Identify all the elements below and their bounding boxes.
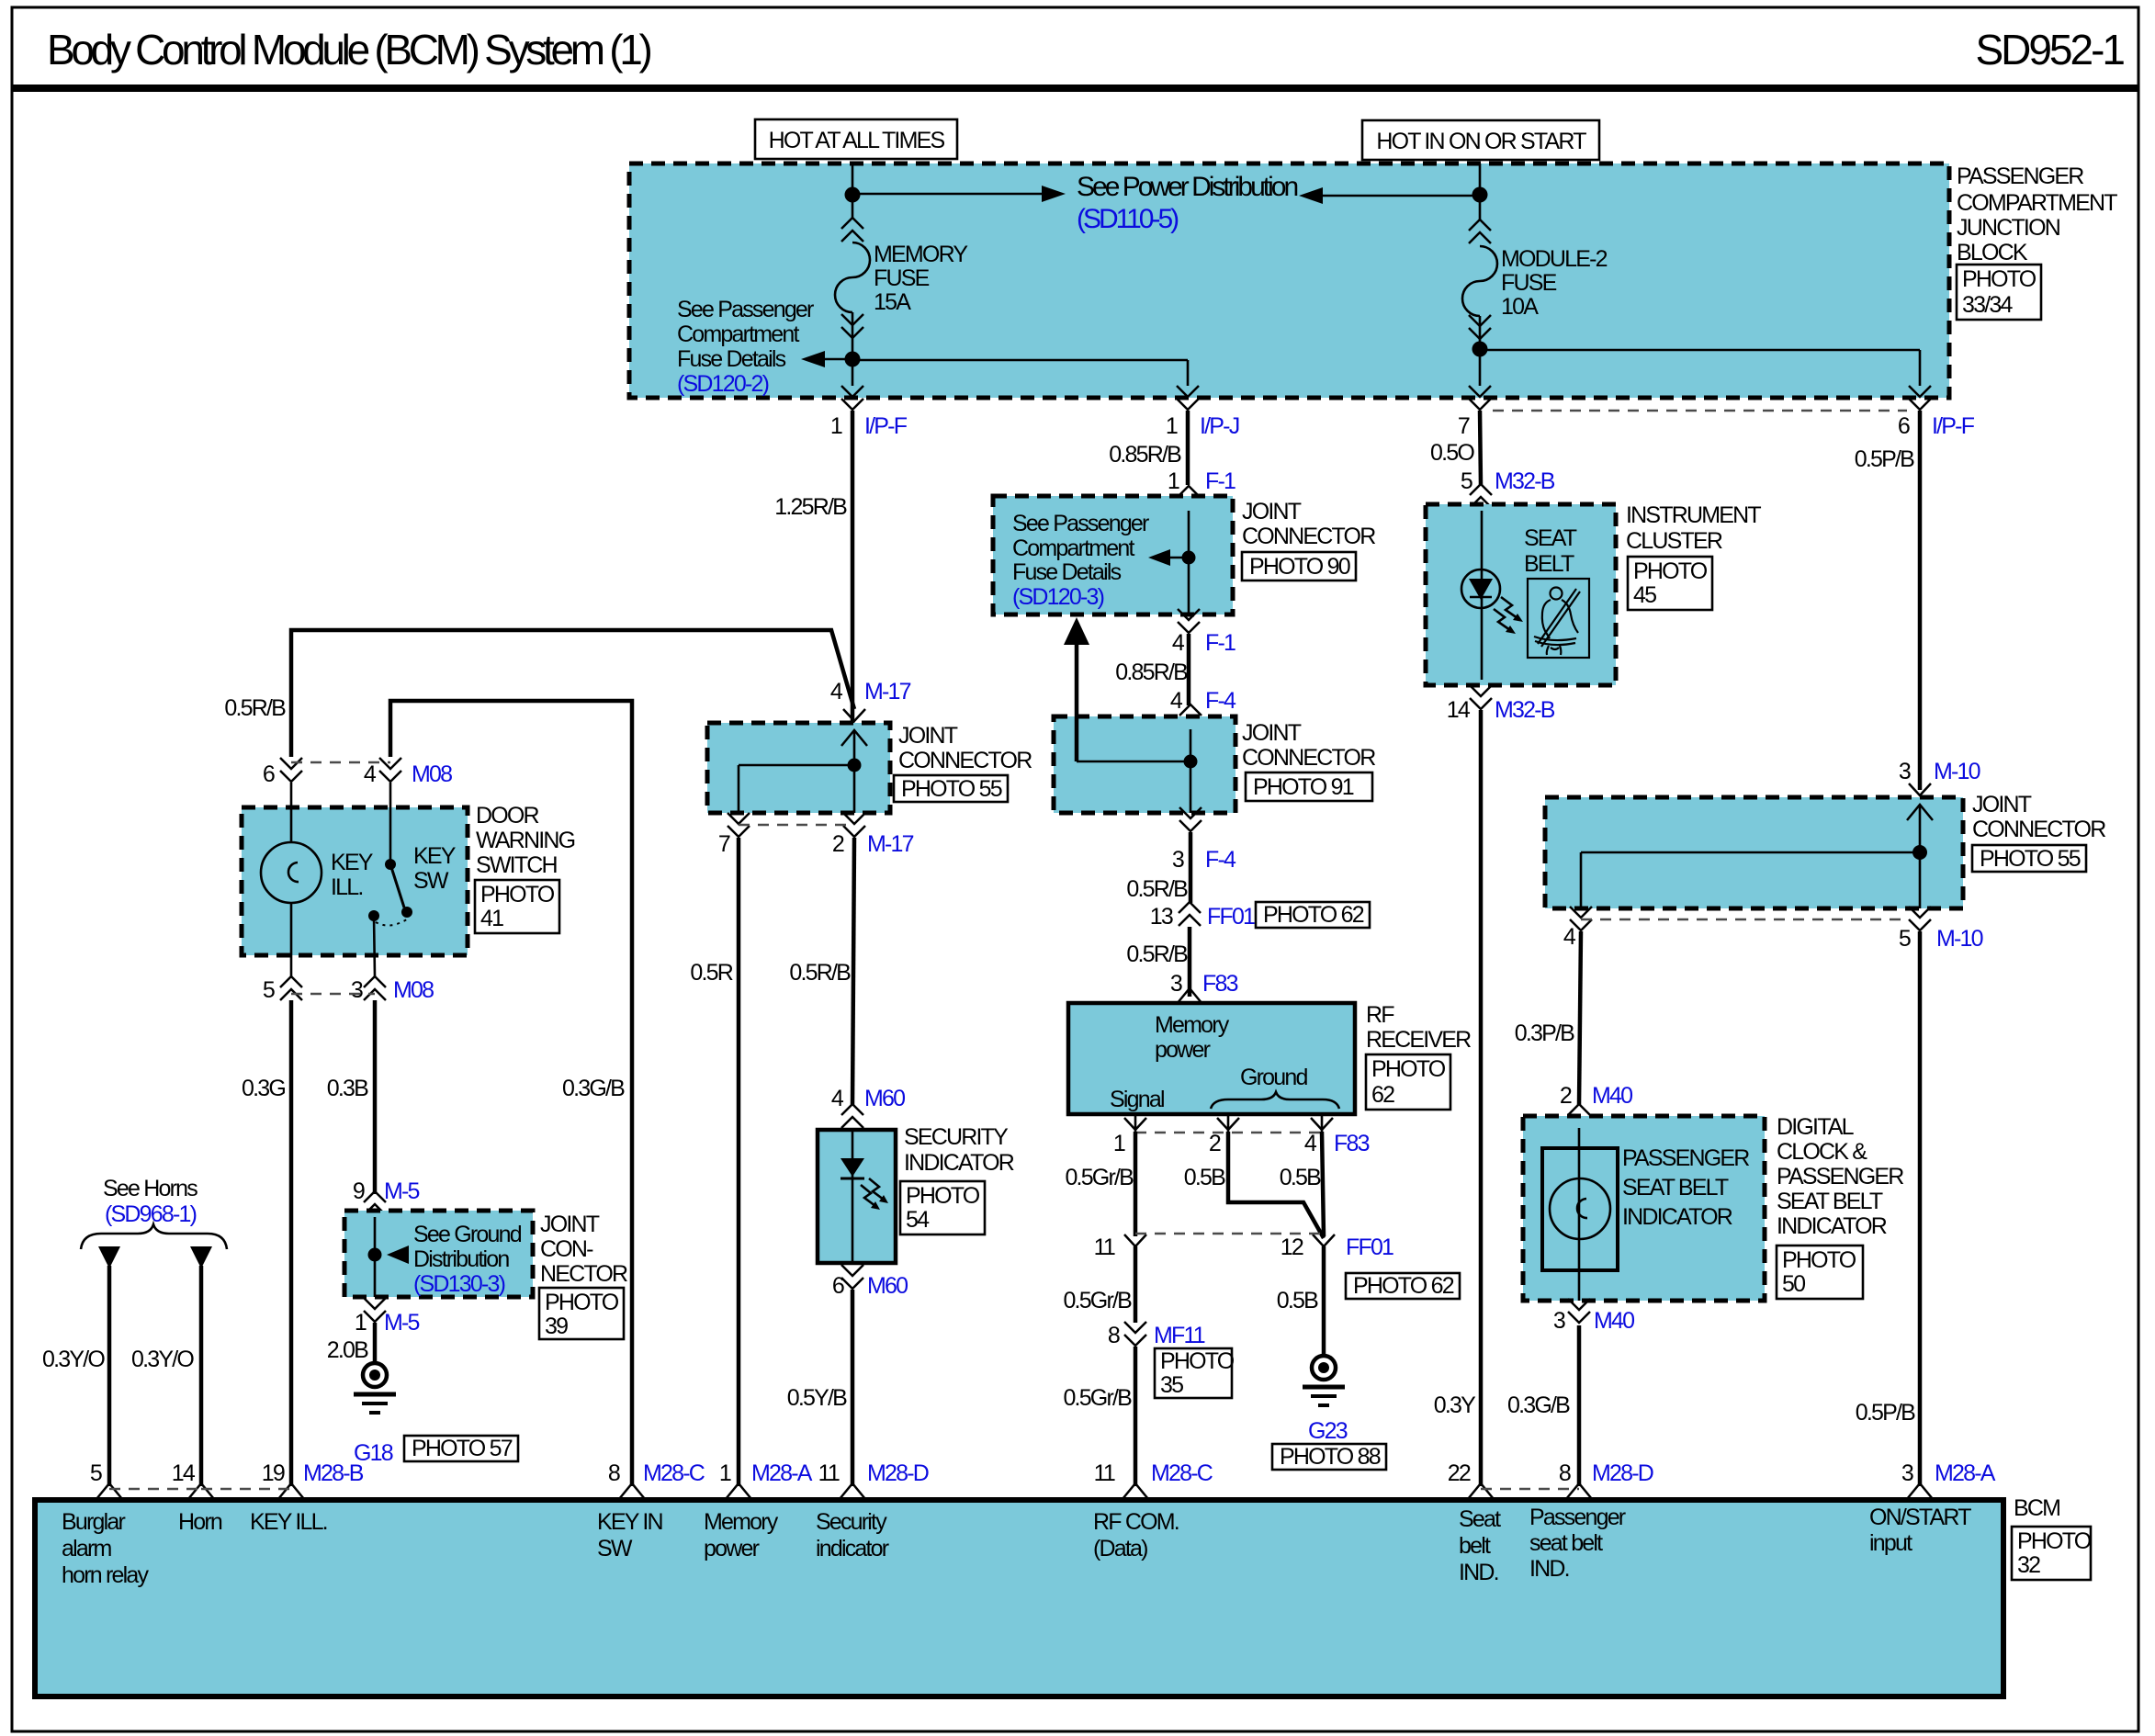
svg-text:M28-A: M28-A — [1935, 1460, 1996, 1486]
svg-text:JOINT: JOINT — [1972, 792, 2032, 817]
svg-text:CONNECTOR: CONNECTOR — [1242, 524, 1375, 549]
connector M40 pin 3 — [1553, 1299, 1634, 1334]
svg-text:3: 3 — [1553, 1308, 1565, 1334]
svg-text:0.5O: 0.5O — [1430, 440, 1474, 466]
svg-text:Security: Security — [816, 1509, 887, 1535]
connector M40 pin 2 — [1560, 1083, 1632, 1128]
svg-text:BLOCK: BLOCK — [1957, 240, 2028, 265]
wire 0.5R/B from M-17 2 to M60 4 — [852, 838, 854, 1105]
wire 0.5R from M-17 7 to BCM 1 M28-A — [737, 838, 741, 1486]
svg-text:0.3G/B: 0.3G/B — [562, 1076, 625, 1101]
svg-text:INDICATOR: INDICATOR — [904, 1150, 1014, 1176]
wire branch to I/P-J — [852, 360, 1188, 386]
component label DIGITAL CLOCK & PASSENGER SEAT BELT INDICATOR PHOTO 50 — [1777, 1114, 1903, 1299]
svg-text:11: 11 — [818, 1460, 840, 1486]
svg-text:PHOTO 88: PHOTO 88 — [1280, 1444, 1381, 1470]
svg-text:belt: belt — [1459, 1533, 1491, 1559]
svg-text:HOT AT ALL TIMES: HOT AT ALL TIMES — [769, 128, 945, 153]
svg-text:3: 3 — [1170, 971, 1182, 997]
svg-text:F83: F83 — [1202, 971, 1238, 997]
svg-text:(SD120-3): (SD120-3) — [1012, 584, 1104, 610]
svg-text:Seat: Seat — [1459, 1506, 1501, 1532]
svg-text:RF: RF — [1366, 1002, 1394, 1028]
wire 0.3G/B from M40 3 to BCM 8 M28-D — [1577, 1325, 1582, 1486]
fuse MODULE-2 FUSE 10A — [1462, 220, 1608, 344]
svg-text:3: 3 — [1901, 1460, 1913, 1486]
svg-text:0.5R/B: 0.5R/B — [224, 695, 286, 721]
svg-text:I/P-F: I/P-F — [864, 413, 908, 439]
svg-text:(SD120-2): (SD120-2) — [677, 371, 769, 397]
connector bridge dashed line FF01 11-12 — [1135, 1233, 1324, 1234]
svg-text:5: 5 — [1899, 926, 1911, 952]
svg-text:12: 12 — [1281, 1234, 1303, 1260]
wire 0.3G from M08 5 to BCM 19 M28-B — [289, 1000, 294, 1486]
svg-text:Compartment: Compartment — [1012, 535, 1134, 561]
svg-text:ON/START: ON/START — [1869, 1505, 1971, 1530]
svg-text:M-10: M-10 — [1936, 926, 1983, 952]
svg-text:0.85R/B: 0.85R/B — [1109, 442, 1181, 468]
svg-text:KEY ILL.: KEY ILL. — [250, 1509, 327, 1535]
SECURITY INDICATOR box — [818, 1130, 896, 1263]
connector M08 pin 5 — [263, 976, 302, 1003]
svg-text:M40: M40 — [1594, 1308, 1634, 1334]
svg-text:19: 19 — [262, 1460, 285, 1486]
svg-text:0.5B: 0.5B — [1280, 1165, 1321, 1190]
svg-text:35: 35 — [1160, 1372, 1183, 1398]
component label DOOR WARNING SWITCH PHOTO 41 — [475, 803, 575, 933]
svg-text:See Power Distribution: See Power Distribution — [1077, 172, 1297, 202]
svg-text:power: power — [704, 1536, 760, 1561]
ground G23 (PHOTO 88) — [1272, 1356, 1386, 1470]
connector M28-B pin 19 — [262, 1460, 364, 1499]
svg-text:SEAT: SEAT — [1524, 525, 1577, 551]
switch KEY SW — [368, 783, 457, 976]
svg-text:indicator: indicator — [816, 1536, 889, 1561]
svg-text:PHOTO 62: PHOTO 62 — [1263, 902, 1364, 928]
connector I/P-J pin 1 — [1166, 386, 1239, 439]
svg-text:Body Control Module (BCM) Syst: Body Control Module (BCM) System (1) — [47, 26, 651, 73]
svg-text:4: 4 — [364, 761, 377, 787]
svg-text:PHOTO 55: PHOTO 55 — [1980, 846, 2081, 872]
svg-text:PHOTO: PHOTO — [480, 882, 555, 907]
svg-text:SW: SW — [413, 868, 449, 894]
svg-text:PASSENGER: PASSENGER — [1957, 163, 2083, 189]
svg-text:4: 4 — [1304, 1131, 1317, 1156]
component label JOINT CONNECTOR PHOTO 55 (right) — [1972, 792, 2105, 872]
svg-text:PHOTO 55: PHOTO 55 — [901, 776, 1002, 802]
svg-text:15A: 15A — [874, 289, 911, 315]
passenger compartment junction block box — [629, 163, 1949, 398]
DIGITAL CLOCK & PASSENGER SEAT BELT INDICATOR box — [1523, 1116, 1765, 1301]
arrow to See Ground Distribution — [387, 1246, 409, 1264]
svg-text:4: 4 — [1563, 924, 1576, 950]
svg-text:0.3Y: 0.3Y — [1434, 1392, 1476, 1418]
LED symbol inside security indicator — [841, 1130, 888, 1263]
component label JOINT CONNECTOR PHOTO 90 — [1242, 499, 1375, 581]
svg-text:F-1: F-1 — [1205, 468, 1235, 494]
svg-text:Distribution: Distribution — [413, 1246, 509, 1272]
lamp passenger seat belt indicator — [1542, 1128, 1618, 1301]
ground G18 (PHOTO 57) — [354, 1363, 518, 1466]
svg-text:ILL.: ILL. — [331, 874, 363, 900]
svg-text:RECEIVER: RECEIVER — [1366, 1027, 1471, 1053]
wire 0.5R/B from FF01 13 to F83 3 — [1188, 927, 1192, 997]
connector M-10 pin 4 — [1563, 907, 1592, 950]
svg-text:Ground: Ground — [1240, 1065, 1307, 1090]
svg-text:See Horns: See Horns — [103, 1176, 197, 1201]
svg-text:1: 1 — [355, 1310, 367, 1336]
node dot inside SD120-3 joint connector — [1182, 551, 1196, 565]
wire inside PHOTO 91 joint connector — [1190, 729, 1192, 813]
brace under Ground pins — [1211, 1092, 1339, 1109]
svg-text:8: 8 — [608, 1460, 620, 1486]
joint connector box PHOTO 55 — [707, 723, 890, 813]
node junction dot below module-2 fuse — [1472, 342, 1488, 357]
node dot inside PHOTO 55 — [848, 759, 862, 772]
svg-text:CLOCK &: CLOCK & — [1777, 1139, 1867, 1165]
svg-text:KEY: KEY — [413, 843, 457, 869]
connector M28-A pin 1 — [719, 1460, 813, 1499]
wire 0.5Gr/B from F83 1 down — [1134, 1132, 1138, 1236]
svg-text:0.3B: 0.3B — [327, 1076, 368, 1101]
svg-text:1: 1 — [1166, 413, 1178, 439]
svg-text:seat belt: seat belt — [1529, 1530, 1603, 1556]
connector F-1 pin 4 — [1172, 609, 1235, 656]
connector F-4 pin 3 — [1172, 807, 1236, 873]
svg-text:0.3Y/O: 0.3Y/O — [42, 1347, 105, 1372]
svg-text:4: 4 — [830, 679, 843, 705]
svg-text:Fuse Details: Fuse Details — [1012, 559, 1122, 585]
joint connector box PHOTO 55 (right) — [1545, 797, 1963, 908]
svg-text:0.5Gr/B: 0.5Gr/B — [1065, 1165, 1134, 1190]
svg-text:PASSENGER: PASSENGER — [1622, 1145, 1749, 1171]
connector M08 pin 6 — [263, 758, 302, 787]
svg-text:PHOTO 90: PHOTO 90 — [1249, 554, 1350, 580]
svg-text:6: 6 — [1898, 413, 1910, 439]
svg-text:M-17: M-17 — [867, 831, 914, 857]
svg-text:SEAT BELT: SEAT BELT — [1777, 1189, 1883, 1214]
svg-text:INDICATOR: INDICATOR — [1622, 1204, 1732, 1230]
svg-text:M-5: M-5 — [384, 1178, 420, 1204]
joint connector box PHOTO 39 (See Ground Distribution) — [344, 1211, 533, 1297]
label HOT IN ON OR START — [1362, 120, 1599, 160]
svg-text:50: 50 — [1782, 1271, 1805, 1297]
seat belt icon — [1528, 579, 1589, 658]
svg-text:COMPARTMENT: COMPARTMENT — [1957, 190, 2117, 216]
wire left arrow inside SD120-3 — [1148, 549, 1182, 566]
svg-text:1: 1 — [719, 1460, 731, 1486]
component label SEAT BELT — [1524, 525, 1577, 577]
component label JOINT CONNECTOR PHOTO 55 — [894, 723, 1032, 802]
connector bridge dashed line M08 6-4 — [291, 761, 390, 763]
connector M-17 pin 7 — [718, 813, 750, 857]
wire 0.5B from F83 2 with jog — [1228, 1132, 1324, 1238]
svg-text:62: 62 — [1371, 1082, 1394, 1108]
svg-text:0.3Y/O: 0.3Y/O — [131, 1347, 194, 1372]
connector F83 pin 3 — [1170, 971, 1238, 1004]
svg-text:0.3P/B: 0.3P/B — [1515, 1020, 1574, 1046]
svg-text:JOINT: JOINT — [540, 1212, 600, 1237]
svg-text:M28-C: M28-C — [1151, 1460, 1213, 1486]
svg-text:32: 32 — [2017, 1552, 2040, 1578]
svg-text:input: input — [1869, 1530, 1912, 1556]
svg-text:SEAT BELT: SEAT BELT — [1622, 1175, 1729, 1201]
pin label Passenger seat belt IND. — [1529, 1505, 1626, 1582]
svg-text:FF01: FF01 — [1207, 904, 1255, 930]
wire inside right PHOTO 55 — [1907, 805, 1933, 908]
svg-text:2.0B: 2.0B — [327, 1337, 368, 1363]
svg-text:1: 1 — [830, 413, 842, 439]
connector I/P-F pin 6 — [1898, 386, 1975, 439]
wire memory fuse output down to I/P-F 1 — [852, 359, 854, 386]
connector M60 pin 4 — [831, 1086, 905, 1128]
pin label Security indicator — [816, 1509, 889, 1561]
svg-text:M32-B: M32-B — [1495, 468, 1555, 494]
svg-text:22: 22 — [1448, 1460, 1471, 1486]
svg-text:Compartment: Compartment — [677, 321, 799, 347]
wire from module-2 junction to See Power Distribution (left arrow) — [1299, 187, 1480, 204]
wire 0.5B to ground G23 — [1322, 1246, 1326, 1356]
connector I/P-F pin 1 — [830, 386, 908, 439]
svg-text:CONNECTOR: CONNECTOR — [1972, 817, 2105, 842]
svg-text:IND.: IND. — [1529, 1556, 1569, 1582]
node junction dot at module-2 fuse top — [1472, 187, 1488, 203]
connector M-5 pin 1 — [355, 1298, 420, 1336]
joint connector box PHOTO 91 — [1054, 716, 1235, 813]
svg-text:Signal: Signal — [1110, 1087, 1164, 1112]
svg-text:SECURITY: SECURITY — [904, 1124, 1009, 1150]
svg-text:3: 3 — [351, 977, 363, 1003]
svg-text:alarm: alarm — [62, 1536, 111, 1561]
connector F83 pin 2 — [1209, 1114, 1239, 1156]
svg-text:3: 3 — [1172, 847, 1184, 873]
svg-text:F83: F83 — [1334, 1131, 1370, 1156]
svg-text:9: 9 — [353, 1178, 365, 1204]
svg-text:14: 14 — [172, 1460, 196, 1486]
svg-text:M40: M40 — [1592, 1083, 1632, 1109]
svg-text:0.5R/B: 0.5R/B — [1126, 941, 1188, 967]
svg-text:M28-B: M28-B — [303, 1460, 364, 1486]
svg-text:INSTRUMENT: INSTRUMENT — [1626, 502, 1761, 528]
node dot inside PHOTO 91 — [1184, 755, 1198, 769]
connector M-10 pin 5 — [1899, 907, 1983, 952]
svg-text:(SD130-3): (SD130-3) — [413, 1271, 505, 1297]
pin label ON/START input — [1869, 1505, 1971, 1556]
connector M32-B pin 14 — [1447, 685, 1555, 723]
svg-text:Memory: Memory — [704, 1509, 779, 1535]
connector F-4 pin 4 — [1170, 688, 1236, 728]
wire 0.5P/B from I/P-F 6 to M-10 3 — [1918, 411, 1923, 790]
svg-text:WARNING: WARNING — [476, 828, 575, 853]
svg-text:0.5R/B: 0.5R/B — [789, 960, 851, 986]
svg-text:2: 2 — [1560, 1083, 1572, 1109]
connector FF01 pin 13 (PHOTO 62) — [1150, 902, 1370, 930]
node junction dot below memory fuse — [845, 352, 861, 367]
svg-text:3: 3 — [1899, 759, 1911, 784]
svg-text:PHOTO 57: PHOTO 57 — [412, 1436, 513, 1461]
svg-text:41: 41 — [480, 906, 503, 931]
connector M32-B pin 5 — [1461, 468, 1555, 508]
wire 0.5Gr/B from MF11 8 to BCM 11 M28-C — [1134, 1347, 1138, 1486]
svg-text:Passenger: Passenger — [1529, 1505, 1626, 1530]
LED seat belt indicator inside instrument cluster — [1461, 511, 1523, 680]
wire inside PHOTO 39 — [374, 1217, 377, 1297]
svg-text:54: 54 — [906, 1207, 930, 1233]
svg-text:10A: 10A — [1501, 294, 1539, 320]
RF RECEIVER box — [1068, 1003, 1355, 1114]
wire 0.5R/B from F-4 3 to FF01 13 — [1189, 832, 1193, 903]
wire inside SD120-3 joint connector — [1188, 511, 1190, 614]
svg-text:M28-A: M28-A — [751, 1460, 813, 1486]
svg-text:CONNECTOR: CONNECTOR — [1242, 745, 1375, 771]
connector M08 pin 3 — [351, 976, 434, 1003]
connector M28-D pin 8 — [1559, 1460, 1653, 1499]
svg-text:M28-D: M28-D — [1592, 1460, 1653, 1486]
wire branch inside PHOTO 55 to pin 7 — [739, 765, 854, 813]
svg-text:G23: G23 — [1308, 1418, 1348, 1444]
connector M28-B pin 5 — [90, 1460, 122, 1499]
wire 0.5B from F83 4 — [1322, 1132, 1324, 1236]
wire branch inside right PHOTO 55 — [1581, 852, 1920, 908]
connector M28-C pin 8 — [608, 1460, 705, 1499]
wire burglar alarm horn relay (0.3Y/O) — [42, 1246, 120, 1486]
svg-text:PHOTO: PHOTO — [1160, 1348, 1235, 1374]
svg-text:F-1: F-1 — [1205, 630, 1235, 656]
svg-text:I/P-F: I/P-F — [1932, 413, 1975, 439]
svg-text:PHOTO: PHOTO — [1782, 1247, 1856, 1273]
svg-text:BELT: BELT — [1524, 551, 1574, 577]
node dot inside PHOTO 39 — [368, 1248, 382, 1262]
svg-text:M60: M60 — [864, 1086, 905, 1111]
net reference See Horns (SD968-1) — [103, 1176, 197, 1227]
svg-text:SD952-1: SD952-1 — [1975, 26, 2124, 73]
wire 0.85R/B from I/P-J 1 to F-1 1 — [1186, 411, 1190, 485]
svg-text:MEMORY: MEMORY — [874, 242, 968, 267]
svg-text:5: 5 — [90, 1460, 102, 1486]
svg-text:6: 6 — [263, 761, 275, 787]
svg-text:11: 11 — [1094, 1460, 1115, 1486]
connector M08 pin 4 — [364, 758, 452, 787]
DOOR WARNING SWITCH box — [242, 807, 468, 955]
wire to See Passenger Compartment Fuse Details (left arrow) — [801, 351, 852, 367]
svg-text:0.5Gr/B: 0.5Gr/B — [1063, 1288, 1132, 1313]
svg-text:horn relay: horn relay — [62, 1562, 149, 1588]
wire horn (0.3Y/O) — [131, 1246, 212, 1486]
svg-text:4: 4 — [831, 1086, 844, 1111]
svg-text:(SD110-5): (SD110-5) — [1077, 204, 1179, 234]
svg-text:IND.: IND. — [1459, 1560, 1498, 1585]
svg-text:M28-C: M28-C — [643, 1460, 705, 1486]
svg-text:PHOTO: PHOTO — [2017, 1528, 2092, 1554]
svg-text:0.3G/B: 0.3G/B — [1507, 1392, 1570, 1418]
svg-text:NECTOR: NECTOR — [540, 1261, 627, 1287]
brace over horn wires — [81, 1224, 227, 1249]
svg-text:6: 6 — [832, 1273, 844, 1299]
connector F83 pin 4 — [1304, 1114, 1370, 1156]
svg-text:MODULE-2: MODULE-2 — [1501, 246, 1608, 272]
svg-text:See Passenger: See Passenger — [1012, 511, 1149, 536]
svg-text:PHOTO: PHOTO — [545, 1290, 619, 1315]
label HOT AT ALL TIMES — [755, 119, 957, 159]
svg-text:0.5R: 0.5R — [690, 960, 732, 986]
svg-text:7: 7 — [718, 831, 730, 857]
connector bridge dashed line M-10 4-5 — [1581, 919, 1909, 920]
svg-text:M08: M08 — [412, 761, 452, 787]
connector pin 22 — [1448, 1460, 1494, 1499]
lamp KEY ILL. — [261, 783, 374, 976]
net reference See Passenger Compartment Fuse Details (SD120-3) — [1012, 511, 1149, 610]
wire 0.5Gr/B from FF01 11 to MF11 8 — [1134, 1246, 1138, 1323]
svg-text:M28-D: M28-D — [867, 1460, 929, 1486]
svg-text:M-10: M-10 — [1934, 759, 1980, 784]
svg-text:0.5Y/B: 0.5Y/B — [787, 1385, 847, 1411]
svg-text:FUSE: FUSE — [1501, 270, 1557, 296]
svg-text:HOT IN ON OR START: HOT IN ON OR START — [1376, 129, 1586, 154]
svg-text:See Passenger: See Passenger — [677, 297, 814, 322]
svg-text:M32-B: M32-B — [1495, 697, 1555, 723]
component label RF RECEIVER PHOTO 62 — [1366, 1002, 1471, 1110]
svg-text:M-5: M-5 — [384, 1310, 420, 1336]
wire inside PHOTO 55 — [841, 730, 867, 813]
svg-text:(SD968-1): (SD968-1) — [105, 1201, 197, 1227]
connector M28-B pin 14 — [172, 1460, 214, 1499]
svg-text:PASSENGER: PASSENGER — [1777, 1164, 1903, 1189]
svg-text:CONNECTOR: CONNECTOR — [898, 748, 1032, 773]
svg-text:JOINT: JOINT — [1242, 720, 1302, 746]
svg-text:PHOTO: PHOTO — [1962, 266, 2037, 292]
svg-text:0.5P/B: 0.5P/B — [1855, 446, 1914, 472]
pin label Memory power — [704, 1509, 779, 1561]
connector M28-D pin 11 — [818, 1460, 929, 1499]
svg-text:JUNCTION: JUNCTION — [1957, 215, 2060, 241]
svg-text:PHOTO: PHOTO — [1371, 1056, 1446, 1082]
connector bridge dashed line F83 pins — [1135, 1132, 1322, 1133]
connector M-10 pin 3 — [1899, 759, 1980, 795]
wire 0.3B from M08 3 to M-5 9 — [373, 1000, 378, 1194]
connector M-17 pin 4 — [830, 679, 911, 721]
wire 0.5P/B from M-10 5 to BCM 3 M28-A — [1918, 931, 1923, 1486]
component label JOINT CONNECTOR PHOTO 91 — [1242, 720, 1375, 801]
net reference See Power Distribution (SD110-5) — [1077, 172, 1297, 234]
component label BCM PHOTO 32 — [2012, 1495, 2092, 1580]
node junction dot at memory fuse top — [845, 187, 861, 203]
svg-text:0.3G: 0.3G — [242, 1076, 285, 1101]
svg-text:JOINT: JOINT — [1242, 499, 1302, 524]
connector FF01 pin 11 — [1094, 1234, 1146, 1260]
svg-text:F-4: F-4 — [1205, 847, 1236, 873]
svg-text:PHOTO: PHOTO — [906, 1183, 980, 1209]
svg-text:M08: M08 — [393, 977, 434, 1003]
connector F83 pin 1 — [1113, 1114, 1146, 1156]
svg-text:2: 2 — [832, 831, 844, 857]
svg-text:JOINT: JOINT — [898, 723, 958, 749]
connector MF11 pin 8 (PHOTO 35) — [1108, 1322, 1235, 1398]
svg-text:Burglar: Burglar — [62, 1509, 125, 1535]
connector FF01 pin 12 (PHOTO 62) — [1281, 1234, 1460, 1299]
component label PASSENGER COMPARTMENT JUNCTION BLOCK — [1957, 163, 2117, 320]
svg-text:11: 11 — [1094, 1234, 1115, 1260]
connector M-5 pin 9 — [353, 1178, 420, 1215]
connector M28-C pin 11 — [1094, 1460, 1213, 1499]
wire 1.25R/B from I/P-F 1 to M-17 4 — [851, 411, 855, 723]
svg-text:CLUSTER: CLUSTER — [1626, 528, 1722, 554]
svg-text:I/P-J: I/P-J — [1200, 413, 1239, 439]
BCM module box — [35, 1500, 2003, 1697]
svg-text:MF11: MF11 — [1154, 1323, 1205, 1348]
svg-text:0.5R/B: 0.5R/B — [1126, 876, 1188, 902]
svg-text:8: 8 — [1559, 1460, 1571, 1486]
wire 0.3Y from M32-B 14 to BCM 22 — [1479, 710, 1484, 1486]
